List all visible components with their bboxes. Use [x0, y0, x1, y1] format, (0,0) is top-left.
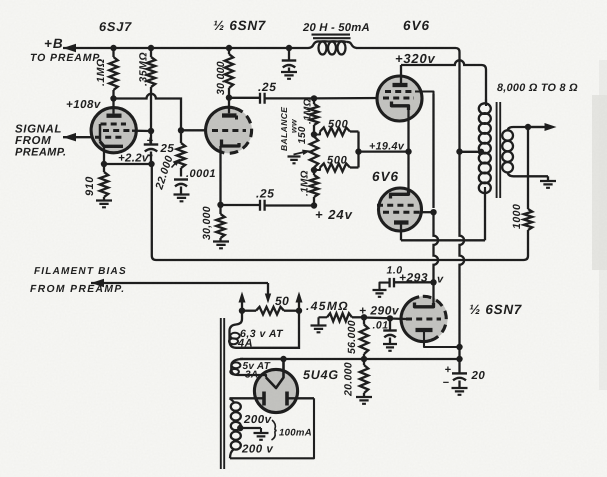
wire screen bus with hops — [434, 94, 439, 297]
capacitor filter (choke output) — [288, 48, 290, 61]
transformer secondary winding — [502, 130, 513, 140]
wire speaker output arrow — [528, 126, 545, 128]
HV center tap — [237, 425, 243, 431]
junction cathode/910 — [101, 161, 107, 167]
tube 6V6 lower envelope — [379, 188, 422, 231]
tube 5U4G envelope — [254, 369, 297, 412]
tube 6SN7a envelope — [206, 107, 252, 153]
wire secondary bottom to ground — [547, 176, 549, 180]
ground 20uF — [452, 388, 468, 395]
6SN7b grid row — [406, 318, 441, 321]
ground 20,000 — [356, 397, 372, 404]
scan streak — [592, 95, 607, 270]
wire .25 to .1M node — [266, 97, 315, 99]
wire HV loop right — [230, 398, 314, 458]
junction 6SJ7 plate to 6SN7 grid — [178, 127, 184, 133]
resistor .1MΩ lower grid — [313, 170, 315, 175]
ground 30,000 lower — [213, 242, 229, 249]
capacitor .01 — [389, 319, 391, 331]
junction grid node lower — [311, 202, 317, 208]
junction 50 left — [239, 308, 245, 314]
wire to 6SN7 grid — [181, 129, 206, 131]
ground .01 — [383, 344, 397, 351]
junction cathode node 6SN7 — [217, 202, 223, 208]
junction primary center tap — [478, 149, 484, 155]
junction B+/center-tap — [456, 148, 462, 154]
wire B+ vertical with hops — [460, 52, 465, 359]
junction secondary/feedback — [525, 124, 531, 130]
ground .0001 — [174, 195, 190, 202]
wire rail to 5v winding — [240, 358, 284, 360]
resistor 22,000 — [180, 130, 182, 143]
capacitor 20uF filter — [458, 359, 460, 373]
wire rail right of choke — [356, 47, 456, 49]
junction grid node upper — [311, 95, 317, 101]
wire plate node junction — [110, 95, 116, 101]
resistor .1MΩ upper grid — [313, 98, 315, 104]
resistor 500 lower — [314, 168, 320, 171]
resistor 30,000 cathode load — [219, 205, 221, 214]
junction rail/30k — [226, 45, 232, 51]
capacitor 1.0 screen bypass — [394, 281, 433, 283]
6SJ7 cathode — [100, 142, 123, 147]
6V6 lower cathode (inverted) — [391, 190, 409, 199]
6V6 upper cathode — [392, 102, 409, 111]
wire B+ bottom rail — [240, 358, 460, 360]
tube 6SJ7 envelope — [91, 108, 136, 153]
arrow heater lead right — [298, 296, 300, 310]
6SJ7 screen row — [103, 129, 132, 132]
power transformer core — [220, 318, 222, 469]
junction pot top — [311, 131, 317, 137]
ground secondary — [540, 181, 556, 188]
resistor .35MΩ screen feed — [150, 48, 152, 57]
junction plate node 6SN7 — [226, 94, 232, 100]
wire cathode to .25 lower — [221, 204, 260, 206]
resistor 50 hum balance — [242, 310, 256, 312]
potentiometer BALANCE 150 ww — [310, 137, 318, 168]
capacitor .0001 — [174, 178, 188, 180]
resistor .45MΩ — [319, 316, 328, 318]
junction rail/.35M — [148, 45, 154, 51]
junction .01 cap — [387, 315, 393, 321]
wire signal input arrow — [63, 133, 76, 142]
wire 500s common — [357, 132, 359, 168]
6SN7a plate — [222, 113, 237, 117]
ground filter cap — [281, 72, 297, 79]
junction screen/.35M/25 — [148, 128, 154, 134]
junction rail end/20uF — [456, 356, 462, 362]
capacitor 25uF screen bypass — [150, 131, 152, 145]
wire plate node to coupling (hop over screen wire) — [114, 94, 182, 128]
5U4G plate right — [285, 392, 289, 406]
junction 50 right — [296, 308, 302, 314]
ground 910 — [96, 201, 112, 208]
junction 500s to cathode line — [355, 148, 361, 154]
inductor choke 20H-50mA — [308, 41, 319, 48]
6V6 upper plate — [393, 83, 408, 87]
junction filament/rail — [280, 356, 286, 362]
pot wiper arrow with ground — [294, 152, 307, 155]
resistor 56,000 — [363, 317, 365, 324]
junction cathodes — [405, 148, 411, 154]
transformer primary winding — [485, 99, 487, 106]
6SJ7 control grid row — [95, 136, 122, 139]
resistor 20,000 bleeder — [363, 359, 365, 365]
heater winding 6.3v — [230, 311, 300, 348]
junction rail/56k-20k — [361, 356, 367, 362]
wire to primary center tap — [460, 151, 482, 153]
tube 6SN7b envelope — [402, 296, 447, 341]
6SN7b plate (inverted) — [416, 328, 433, 332]
5U4G filament — [242, 375, 267, 378]
tube 6V6 upper envelope — [377, 76, 422, 121]
junction pot bottom — [311, 167, 317, 173]
6V6 lower grid row — [377, 204, 417, 207]
wire grid node — [364, 316, 390, 319]
resistor 1000 feedback — [527, 127, 529, 209]
resistor 910 cathode — [103, 164, 105, 172]
wire B+ rail with arrow to preamp — [63, 44, 76, 52]
transformer core — [496, 102, 498, 198]
wire filament bias line — [91, 279, 104, 287]
wire lower plate to primary bottom — [401, 239, 485, 241]
ground .45M — [311, 326, 327, 333]
6SN7a grid row — [212, 129, 246, 132]
junction rail/filter-cap — [286, 45, 292, 51]
wire .25 lower to .1M node — [266, 204, 315, 206]
5U4G plate left — [262, 392, 266, 406]
junction .45M/56k — [361, 314, 367, 320]
wire plate to .25 cap — [229, 97, 260, 99]
wire +19.4v cathode line — [359, 150, 409, 152]
ground HV center tap — [254, 433, 269, 440]
capacitor .25 upper coupling — [260, 93, 265, 104]
junction screen bus lower — [430, 209, 436, 215]
wire +320v plate to transformer (hop over B+) — [401, 60, 486, 104]
junction plate to B+ — [456, 344, 462, 350]
6SJ7 plate — [107, 114, 122, 118]
capacitor .25 lower coupling — [260, 200, 265, 211]
resistor 500 upper — [314, 132, 320, 135]
arrow heater lead left — [241, 296, 243, 310]
wire cathode to 25uF — [104, 163, 152, 165]
6V6 upper grid row — [383, 97, 414, 100]
HV winding 400vct — [230, 398, 235, 402]
wire to 6SN7b grid — [390, 317, 406, 320]
resistor .1MΩ plate load — [112, 48, 114, 57]
6SN7b cathode (inverted) — [415, 303, 434, 307]
junction screen bus / 1uF — [430, 279, 436, 285]
junction cathode/feedback — [148, 161, 154, 167]
wire to 6V6 upper grid — [314, 97, 383, 100]
6V6 lower plate (inverted) — [394, 220, 409, 224]
ground 1.0 cap — [373, 290, 387, 297]
6V6 lower screen row — [383, 211, 421, 214]
6V6 upper screen row — [385, 90, 415, 93]
resistor 30,000 plate load — [228, 48, 230, 54]
junction rail/.1M — [110, 45, 116, 51]
6SJ7 suppressor row with cathode tie — [101, 123, 127, 126]
6SN7a cathode — [222, 140, 240, 147]
rectifier winding 5v — [231, 359, 243, 375]
